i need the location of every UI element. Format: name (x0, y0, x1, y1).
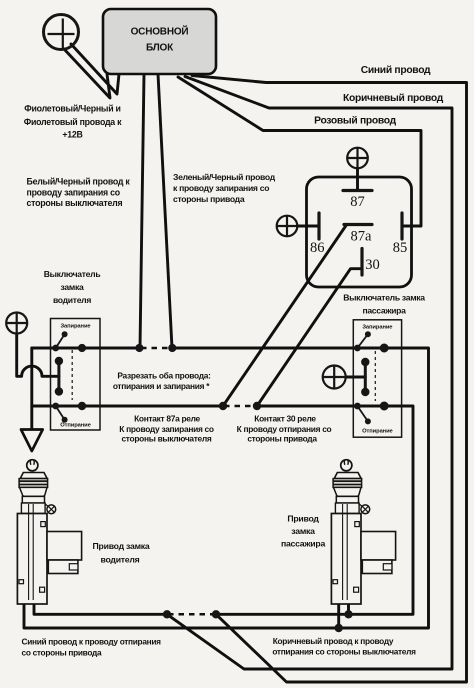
svg-text:стороны выключателя: стороны выключателя (121, 434, 211, 444)
svg-text:со стороны привода: со стороны привода (22, 648, 102, 658)
svg-text:85: 85 (393, 240, 408, 256)
svg-text:Контакт 87а реле: Контакт 87а реле (134, 414, 200, 424)
svg-text:Фиолетовый/Черный и: Фиолетовый/Черный и (24, 104, 120, 114)
svg-text:Выключатель: Выключатель (44, 269, 101, 279)
svg-text:Зеленый/Черный провод: Зеленый/Черный провод (173, 172, 276, 182)
svg-text:пассажира: пассажира (362, 306, 406, 316)
svg-text:Коричневый провод к проводу: Коричневый провод к проводу (273, 636, 394, 646)
svg-text:Коричневый провод: Коричневый провод (343, 93, 444, 104)
svg-text:отпирания и запирания *: отпирания и запирания * (113, 381, 210, 391)
svg-text:К проводу отпирания со: К проводу отпирания со (237, 424, 332, 434)
svg-text:БЛОК: БЛОК (146, 43, 174, 54)
svg-text:стороны привода: стороны привода (247, 434, 317, 444)
svg-text:Разрезать оба провода:: Разрезать оба провода: (117, 371, 210, 381)
svg-text:к проводу запирания со: к проводу запирания со (173, 183, 269, 193)
svg-text:Синий провод к проводу отпир: Синий провод к проводу отпирания (22, 637, 162, 647)
svg-text:Контакт 30 реле: Контакт 30 реле (254, 414, 316, 424)
svg-text:пассажира: пассажира (281, 539, 325, 549)
svg-text:Запирание: Запирание (60, 324, 91, 330)
svg-text:Выключатель замка: Выключатель замка (343, 293, 425, 303)
svg-text:Фиолетовый провода к: Фиолетовый провода к (24, 117, 122, 127)
svg-text:замка: замка (291, 526, 315, 536)
svg-text:87а: 87а (351, 229, 373, 245)
svg-text:замка: замка (61, 282, 84, 292)
svg-text:проводу запирания со: проводу запирания со (27, 187, 121, 197)
svg-text:Привод замка: Привод замка (93, 541, 150, 551)
svg-text:Привод: Привод (287, 514, 319, 524)
svg-text:Розовый провод: Розовый провод (314, 116, 396, 127)
svg-text:30: 30 (365, 257, 380, 273)
svg-text:+12В: +12В (62, 130, 82, 140)
svg-text:Отпирание: Отпирание (362, 429, 393, 435)
svg-text:87: 87 (350, 194, 365, 210)
svg-text:отпирания со стороны выключ: отпирания со стороны выключателя (272, 647, 416, 657)
svg-text:водителя: водителя (53, 295, 91, 305)
svg-text:водителя: водителя (101, 555, 140, 565)
svg-text:Отпирание: Отпирание (60, 423, 91, 429)
svg-text:Синий провод: Синий провод (361, 65, 431, 76)
svg-text:Запирание: Запирание (362, 325, 393, 331)
svg-text:стороны привода: стороны привода (173, 194, 245, 204)
svg-text:Белый/Черный провод к: Белый/Черный провод к (27, 177, 131, 187)
svg-text:стороны выключателя: стороны выключателя (27, 198, 123, 208)
svg-text:86: 86 (310, 240, 325, 256)
svg-text:ОСНОВНОЙ: ОСНОВНОЙ (131, 25, 189, 38)
svg-text:К проводу запирания со: К проводу запирания со (119, 424, 214, 434)
